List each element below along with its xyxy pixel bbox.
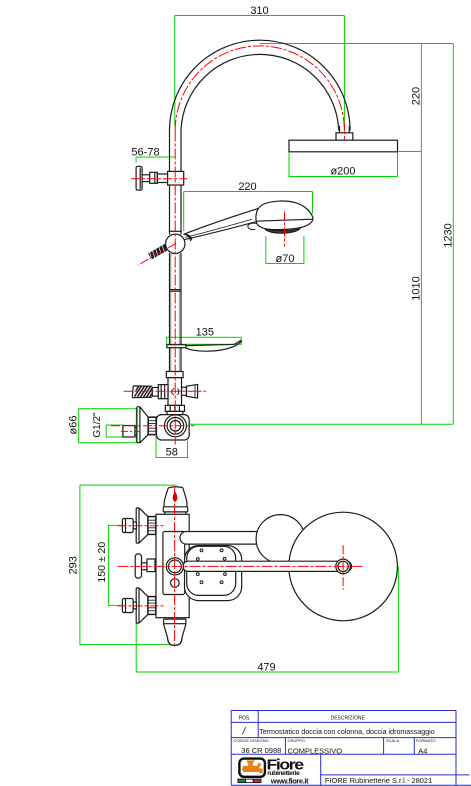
table formato divider: [413, 738, 415, 755]
dim 135 box: [167, 337, 242, 344]
table logo divider: [320, 754, 322, 785]
lower angle valve group: [123, 407, 189, 443]
slider tick: [169, 230, 182, 232]
mixer inner panel: [163, 532, 185, 595]
handle top bell: [139, 508, 148, 543]
dish body: [186, 340, 242, 351]
logo faucet icon: [242, 760, 263, 773]
valve body: [157, 415, 190, 440]
shower arm top view: [183, 561, 352, 571]
centerline handle top: [118, 525, 166, 527]
valve stem: [142, 175, 150, 182]
mixer body: [156, 514, 189, 617]
column tube top view stadium: [180, 532, 262, 545]
arm end connector: [336, 559, 351, 574]
handle bottom bell: [139, 588, 148, 623]
handle top stem: [133, 522, 136, 529]
svg-text:135: 135: [196, 327, 214, 339]
table row2 line: [231, 737, 456, 739]
soap dish holder top view: [185, 546, 242, 601]
dim head-bottom reference line: [398, 151, 422, 153]
centerline gooseneck arc: [175, 46, 344, 131]
dim top reference line y43.5: [260, 43, 454, 45]
handle bottom cap: [122, 599, 133, 613]
centerline mixer vertical: [174, 486, 176, 644]
logo www text: [270, 777, 309, 786]
dim 310 left extension: [174, 16, 176, 127]
tee hose nut: [158, 385, 168, 399]
column inner highlight lines: [171, 254, 179, 371]
dim 220 vertical line: [420, 44, 422, 152]
centerline top valve: [131, 178, 187, 180]
table pos divider: [257, 711, 259, 738]
dim 293 lines: [80, 485, 177, 644]
table fiore line: [321, 774, 470, 776]
svg-text:FIORE Rubinetterie S.r.l.- 280: FIORE Rubinetterie S.r.l.- 28021: [325, 776, 432, 785]
tee hose hatch: [135, 386, 153, 397]
handle top cap: [122, 519, 133, 533]
svg-text:1230: 1230: [442, 223, 454, 247]
dim 1230 vertical line: [452, 44, 454, 425]
dim o66 box: [79, 409, 137, 443]
svg-text:DESCRIZIONE: DESCRIZIONE: [331, 716, 366, 722]
valve circles: [164, 415, 186, 437]
dim 310 right extension: [343, 16, 345, 141]
svg-text:1010: 1010: [410, 276, 422, 300]
tee knob stem: [182, 387, 187, 395]
head drop pipe: [340, 126, 350, 133]
hand shower group: [150, 201, 313, 371]
centerline handshower head: [284, 212, 286, 247]
handle inner line: [186, 219, 253, 237]
middle T-handle nut: [147, 559, 155, 572]
dim valve-center reference line: [190, 423, 453, 425]
centerline inlet nut: [121, 430, 140, 432]
centerline ball hose: [138, 243, 176, 265]
handle top line: [184, 206, 268, 235]
dim G1/2 box: [106, 425, 123, 437]
gooseneck arc outer: [170, 40, 351, 130]
shower column tube: [170, 131, 182, 415]
handshower chord line: [256, 219, 313, 221]
column seam: [170, 290, 182, 292]
svg-text:58: 58: [166, 447, 178, 459]
svg-text:SCALA: SCALA: [386, 738, 399, 743]
table scala divider: [383, 738, 385, 755]
shower head o200: [289, 140, 398, 152]
table bottom line: [231, 784, 471, 786]
lower nut stack: [165, 405, 184, 411]
svg-text:FORMATO: FORMATO: [416, 738, 436, 743]
dish clamp: [167, 345, 186, 348]
big shower head circle top view: [289, 512, 398, 621]
dim 479 lines: [136, 567, 398, 673]
dim 56-78 line: [136, 157, 175, 163]
svg-text:ø66: ø66: [68, 416, 80, 435]
valve flange: [136, 166, 142, 190]
centerline column: [174, 131, 176, 445]
dish holes: [196, 549, 226, 584]
ball joint hose hatch: [150, 243, 168, 259]
svg-text:COMPLESSIVO: COMPLESSIVO: [288, 746, 343, 755]
table row3 line: [231, 753, 456, 755]
centerline tee: [124, 390, 207, 392]
valve block on column: [168, 171, 184, 185]
head connector block: [336, 133, 353, 140]
soap dish top view: [187, 546, 236, 595]
valve pipe: [157, 174, 167, 183]
middle T-handle stem: [142, 563, 148, 570]
centerline big circle vertical: [342, 545, 344, 590]
svg-text:56-78: 56-78: [131, 146, 159, 158]
handle top knurl: [148, 517, 156, 535]
svg-text:CODICE DISEGNO: CODICE DISEGNO: [234, 738, 269, 743]
mixer top cap: [168, 487, 182, 488]
tee body: [168, 378, 182, 406]
svg-text:POS.: POS.: [239, 716, 251, 722]
handshower hook tab: [248, 223, 257, 229]
gooseneck arc inner: [181, 54, 339, 130]
svg-text:220: 220: [411, 87, 423, 105]
table codice divider: [284, 738, 286, 755]
logo tv box: [239, 759, 265, 777]
mixer bottom cap: [168, 638, 183, 646]
valve nut: [150, 172, 158, 183]
mixer top nozzle: [163, 488, 187, 515]
tee collar: [166, 372, 183, 378]
svg-text:G1/2": G1/2": [92, 412, 103, 438]
svg-text:310: 310: [250, 5, 268, 17]
holder clip: [184, 234, 192, 241]
tee inner arcs: [171, 388, 179, 395]
centerline handle bottom: [118, 605, 166, 607]
dim 310 line: [175, 15, 345, 17]
svg-text:A4: A4: [418, 746, 427, 755]
ball joint: [166, 234, 185, 253]
inlet taper: [135, 427, 138, 436]
diverter tee group: [132, 372, 197, 415]
mixer bottom nozzle: [164, 619, 186, 638]
svg-text:ø70: ø70: [276, 253, 295, 265]
svg-text:GRUPPO: GRUPPO: [288, 738, 305, 743]
fiore logo: [238, 757, 309, 786]
soap dish front view: [167, 340, 242, 351]
centerline valve: [111, 425, 195, 427]
centerline head pipe: [343, 124, 345, 140]
table right edge: [455, 711, 457, 786]
hub circles: [166, 558, 183, 575]
dim o200 lines: [289, 153, 398, 177]
hand shower circle top view: [256, 515, 305, 564]
dim 1010 vertical line: [420, 152, 422, 425]
svg-text:www.fiore.it: www.fiore.it: [270, 777, 309, 786]
inlet nut: [123, 426, 135, 438]
thread section: [148, 417, 156, 434]
red teardrop: [173, 491, 178, 501]
tee hose outline: [132, 386, 152, 398]
handle bottom stem: [133, 602, 136, 609]
svg-text:36 CR 0988: 36 CR 0988: [241, 746, 281, 755]
dim 220 handshower line: [184, 192, 313, 232]
middle T-handle bar: [135, 554, 141, 578]
dim 58 lines: [156, 436, 188, 458]
small body circle: [171, 579, 180, 588]
handle bottom line: [183, 222, 256, 240]
handshower head body: [256, 201, 313, 230]
svg-text:293: 293: [68, 556, 80, 574]
svg-text:ø200: ø200: [330, 166, 355, 178]
logo rubinetterie text: [267, 770, 300, 777]
top wall union valve 56-78: [136, 166, 184, 190]
logo FIORE text: [267, 757, 304, 773]
dim 150+-20 lines: [108, 525, 122, 605]
table left edge: [230, 711, 232, 786]
table top line: [231, 710, 456, 712]
centerline arm: [118, 565, 365, 567]
table row1 line: [231, 721, 456, 723]
tee knob: [187, 384, 198, 398]
handle bottom knurl: [148, 597, 156, 615]
svg-text:150 ± 20: 150 ± 20: [96, 542, 108, 583]
dim o70 lines: [266, 236, 304, 264]
svg-text:Termostatico doccia con colonn: Termostatico doccia con colonna, doccia …: [259, 728, 435, 736]
wall bell flange: [140, 407, 148, 443]
svg-text:479: 479: [257, 662, 275, 674]
logo flag: [238, 779, 261, 783]
handshower spray face: [265, 228, 301, 233]
svg-text:/: /: [242, 727, 247, 738]
svg-text:220: 220: [238, 181, 256, 193]
tee hose pipe: [152, 388, 158, 397]
